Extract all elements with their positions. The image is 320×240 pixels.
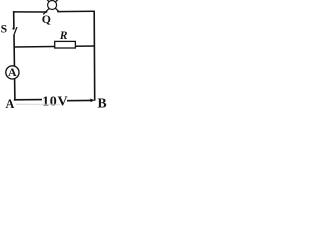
svg-text:A: A: [6, 97, 15, 108]
svg-text:S: S: [1, 23, 8, 36]
ammeter A: [6, 66, 19, 79]
svg-text:B: B: [98, 96, 107, 108]
wire: left rail lower (switch through ammeter to bottom corner): [13, 35, 16, 101]
svg-text:10V: 10V: [42, 94, 68, 108]
faint scan smudge: [16, 103, 60, 105]
wire: right rail vertical: [93, 11, 96, 101]
wire: top-right horizontal (lamp to right rail): [57, 10, 95, 12]
arrowhead: [90, 99, 94, 103]
wire: left rail upper (corner to switch): [13, 11, 15, 28]
lamp Q: crossed circle: [43, 0, 59, 14]
switch S: pivot dot: [12, 28, 14, 30]
wire: top-left horizontal (to lamp): [13, 11, 47, 13]
middle wire (resistor branch): [14, 46, 94, 47]
svg-text:Q: Q: [42, 12, 51, 26]
svg-text:A: A: [8, 65, 17, 79]
bottom wire right segment with arrow: [67, 99, 91, 101]
svg-text:R: R: [59, 29, 68, 42]
switch S: blade: [14, 27, 17, 35]
bottom wire left segment: [14, 99, 42, 101]
resistor R box: [55, 41, 76, 48]
background: [0, 0, 108, 108]
